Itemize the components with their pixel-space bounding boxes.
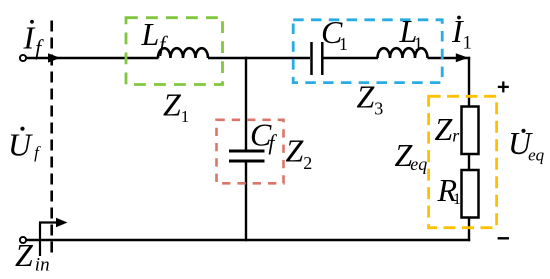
capacitor Cf bottom plate: [229, 160, 265, 163]
wire top: C1 to inductor L1: [324, 57, 379, 59]
wire middle vertical: node A to Cf: [245, 57, 247, 151]
wire middle vertical: Cf to bottom: [245, 161, 247, 241]
dot of If: [30, 20, 34, 24]
impedance box Zr: [462, 107, 479, 155]
wire right vertical: R1 to bottom: [468, 218, 470, 242]
wire bottom: [26, 239, 470, 241]
dot of Ueq: [521, 129, 525, 133]
current arrow I1 head: [456, 53, 469, 62]
capacitor Cf top plate: [229, 150, 265, 153]
polarity minus sign: [498, 237, 509, 239]
inductor L1: [378, 48, 428, 58]
polarity plus sign: [498, 81, 509, 92]
wire between Zr and R1: [468, 154, 470, 170]
wire right vertical: corner to Zr: [468, 57, 470, 107]
dashed measurement line (port boundary): [50, 21, 53, 258]
orange dashed box Zeq: [429, 96, 497, 227]
blue dashed box Z3: [293, 20, 442, 83]
dot of I1: [457, 16, 461, 20]
dot of Uf: [20, 127, 24, 131]
red dashed box Z2: [217, 120, 284, 184]
wire top: L1 to right corner: [428, 57, 471, 59]
input impedance arrow Zin: [40, 223, 57, 257]
terminal top-left port: [20, 55, 26, 61]
wire top: port to inductor Lf: [26, 57, 158, 59]
terminal bottom-left port: [20, 237, 26, 243]
green dashed box Z1: [126, 18, 223, 85]
capacitor C1 left plate: [310, 42, 313, 75]
wire top: Lf to node A: [208, 57, 310, 59]
inductor Lf: [158, 48, 208, 58]
current arrow If head: [48, 53, 60, 62]
resistor R1: [462, 170, 479, 218]
capacitor C1 right plate: [321, 42, 324, 75]
